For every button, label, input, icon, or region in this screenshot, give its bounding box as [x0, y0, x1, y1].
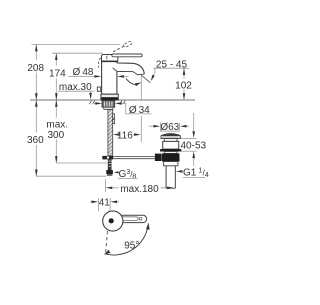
svg-text:360: 360: [27, 135, 44, 146]
deck hatch ticks: [89, 101, 125, 105]
drain neck: [164, 139, 177, 142]
dim Ø63 arrows: [149, 123, 189, 132]
svg-text:95°: 95°: [124, 240, 139, 251]
faucet body column: [102, 61, 117, 94]
spout: [113, 63, 145, 75]
pop-up knob: [97, 87, 100, 91]
wire tilted stream: [141, 75, 150, 83]
wire stream axis upper: [140, 75, 142, 100]
svg-text:40-53: 40-53: [181, 140, 207, 151]
curved swivel arrow: [126, 78, 142, 86]
cap pivot mark: [106, 56, 109, 60]
drain collar: [164, 152, 177, 154]
dim max300 line: [55, 100, 58, 163]
deck line: [30, 99, 195, 101]
swing dashed radius: [106, 231, 108, 252]
dim Ø34 arrows and elbow: [93, 102, 152, 114]
wire ext line B spout top: [52, 52, 103, 54]
pop-up rod: [113, 156, 155, 158]
lever tip ext tick: [147, 223, 149, 227]
dim 174 line: [55, 53, 58, 100]
svg-text:25 - 45: 25 - 45: [156, 59, 188, 70]
svg-text:G3/8: G3/8: [119, 169, 137, 181]
top view lever: [115, 215, 147, 222]
dim 360 line: [35, 100, 38, 176]
dim 40-53: [181, 113, 197, 166]
dim 208 line: [35, 45, 38, 101]
wire hose-end ref line: [56, 162, 107, 164]
rod clevis: [102, 156, 113, 160]
dim 116: [113, 133, 141, 136]
svg-text:208: 208: [27, 63, 44, 74]
drain nut: [162, 153, 180, 161]
shank nubs: [113, 114, 115, 119]
top view knob: [103, 211, 123, 231]
wire shank-end ref line: [36, 175, 106, 177]
knob center dot: [109, 218, 114, 223]
lever raised dashed: [113, 41, 132, 52]
lever handle: [112, 54, 142, 57]
drain body: [163, 141, 179, 149]
svg-text:Ø 34: Ø 34: [129, 105, 150, 116]
svg-text:max.180: max.180: [120, 184, 159, 195]
svg-text:41: 41: [99, 197, 111, 208]
threaded tube: [108, 159, 112, 170]
dim 102 line: [183, 68, 186, 100]
leader G1 1/4: [176, 170, 183, 173]
rod coupling block: [155, 154, 162, 161]
under-deck washer: [102, 101, 115, 107]
escutcheon base: [101, 94, 118, 100]
drain lower body: [164, 162, 178, 166]
leader 25-45 to aerator: [151, 68, 155, 81]
wire ext line A lever top: [32, 44, 121, 46]
svg-text:300: 300: [47, 130, 64, 141]
leader max.30 to deck: [89, 91, 92, 99]
cap raised dashed arc: [98, 58, 100, 68]
drain tailpipe: [166, 166, 175, 189]
svg-text:174: 174: [49, 69, 66, 80]
dim max.180: [106, 179, 174, 192]
dim 41: [90, 198, 119, 211]
svg-text:116: 116: [117, 130, 133, 141]
washer collar: [104, 107, 113, 109]
dim Ø48 arrows: [68, 75, 128, 78]
swing arc 95: [104, 223, 150, 255]
faucet cap: [102, 55, 118, 62]
drain seal ring: [160, 149, 181, 151]
wire stream axis lower: [140, 116, 142, 142]
drain flange: [161, 134, 180, 139]
shank bottom nut: [106, 170, 113, 176]
threaded shank: [108, 110, 113, 156]
leader G 3/8: [114, 171, 119, 173]
svg-text:102: 102: [175, 81, 192, 92]
svg-text:G11/4: G11/4: [183, 167, 209, 179]
